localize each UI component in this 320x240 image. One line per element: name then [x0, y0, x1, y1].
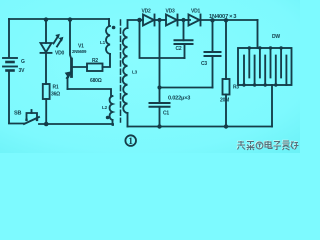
- svg-text:R1: R1: [53, 85, 59, 91]
- diode VD3: [166, 9, 178, 26]
- capacitor C1: [150, 20, 170, 127]
- svg-text:VD3: VD3: [166, 9, 176, 15]
- glyph tiao: [247, 142, 255, 151]
- wire R1 to rail: [45, 99, 47, 124]
- node junction C3 top: [210, 18, 214, 22]
- node junction C2 branch: [181, 18, 185, 22]
- wire HV feed down: [257, 20, 259, 48]
- node junction R1-rail: [44, 122, 49, 127]
- wire node A to VD2: [140, 19, 144, 21]
- svg-text:L2: L2: [102, 105, 108, 110]
- node dots DW bottom bus: [242, 83, 245, 86]
- svg-text:3V: 3V: [19, 68, 26, 74]
- glyph dian: [265, 141, 272, 149]
- node junction collector branch: [68, 17, 72, 21]
- glyph tou: [238, 141, 246, 150]
- glyph hao: [291, 142, 299, 150]
- wire R2 to L1 bottom: [103, 54, 111, 67]
- electrode grid DW: [238, 34, 292, 85]
- wire battery to switch: [9, 123, 24, 125]
- wire node A drop: [140, 20, 185, 58]
- node L1 polarity dot: [112, 26, 116, 30]
- wire base lead: [73, 66, 88, 68]
- wire bottom rail secondary: [128, 126, 273, 128]
- wire VD3 to VD1: [178, 19, 191, 21]
- node L2 polarity dot: [106, 116, 110, 120]
- wire emitter to L2 top: [68, 89, 112, 96]
- wire LED to R1: [45, 53, 47, 84]
- svg-text:VD1: VD1: [191, 9, 201, 15]
- svg-text:VD2: VD2: [142, 9, 152, 15]
- svg-text:SB: SB: [14, 111, 21, 117]
- wire bottom rail primary: [39, 123, 113, 125]
- node junction C1 rail: [157, 124, 161, 128]
- svg-text:L3: L3: [132, 70, 138, 75]
- glyph zi: [274, 142, 282, 150]
- node A junction: [137, 18, 142, 23]
- glyph ai: [283, 141, 290, 150]
- figure number 1: [125, 135, 136, 147]
- transformer core: [120, 20, 122, 122]
- svg-text:C3: C3: [201, 61, 207, 67]
- svg-text:DW: DW: [272, 34, 280, 40]
- transistor V1: [65, 44, 87, 90]
- wire C3 bottom link: [160, 87, 213, 89]
- node junction C1 branch: [157, 18, 161, 22]
- switch SB: [14, 110, 39, 124]
- wire collector feed: [70, 19, 72, 60]
- inductor L1: [100, 19, 110, 54]
- node junction LED-top: [44, 17, 48, 21]
- LED VD0: [41, 34, 65, 56]
- svg-text:C1: C1: [163, 111, 169, 117]
- svg-text:1: 1: [128, 137, 133, 147]
- svg-text:36Ω: 36Ω: [51, 92, 60, 98]
- svg-text:680Ω: 680Ω: [90, 78, 102, 84]
- wire LED branch: [45, 19, 47, 43]
- wire DW bottom feed: [271, 85, 273, 127]
- svg-text:20M: 20M: [220, 98, 229, 104]
- wire top bus primary: [9, 18, 109, 20]
- node junction R3 rail: [224, 124, 228, 128]
- node dots DW top bus: [248, 46, 251, 49]
- node junction R3 top: [224, 18, 228, 22]
- svg-text:VD0: VD0: [55, 51, 65, 57]
- diode VD1: [189, 9, 201, 26]
- battery G: [3, 19, 25, 123]
- logo circle: [256, 142, 263, 149]
- svg-text:C2: C2: [176, 46, 182, 52]
- watermark toutiao: [237, 140, 298, 149]
- capacitor C3: [201, 20, 221, 88]
- svg-text:R2: R2: [92, 58, 98, 64]
- wire VD2 to VD3: [155, 19, 167, 21]
- svg-text:L1: L1: [100, 40, 106, 45]
- resistor R1: [43, 84, 60, 99]
- inductor L2: [102, 96, 113, 125]
- wire VD1 to right: [201, 19, 258, 21]
- diode VD2: [142, 9, 155, 26]
- capacitor C2: [175, 20, 193, 58]
- svg-text:0.022μ×3: 0.022μ×3: [168, 95, 190, 101]
- inductor L3: [123, 20, 139, 127]
- svg-text:G: G: [21, 59, 25, 65]
- resistor R2: [87, 58, 103, 84]
- svg-text:2N5609: 2N5609: [72, 49, 87, 54]
- node junction C3 horizontal: [157, 85, 161, 89]
- resistor R3: [220, 20, 239, 127]
